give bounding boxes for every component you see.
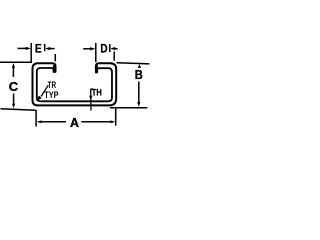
svg-text:A: A bbox=[70, 116, 79, 130]
svg-text:TH: TH bbox=[92, 87, 102, 98]
svg-text:C: C bbox=[9, 79, 19, 94]
svg-text:B: B bbox=[135, 68, 143, 82]
svg-text:D: D bbox=[100, 44, 107, 56]
svg-text:E: E bbox=[35, 43, 42, 55]
svg-text:TR: TR bbox=[48, 80, 57, 90]
svg-text:TYP: TYP bbox=[44, 90, 58, 100]
